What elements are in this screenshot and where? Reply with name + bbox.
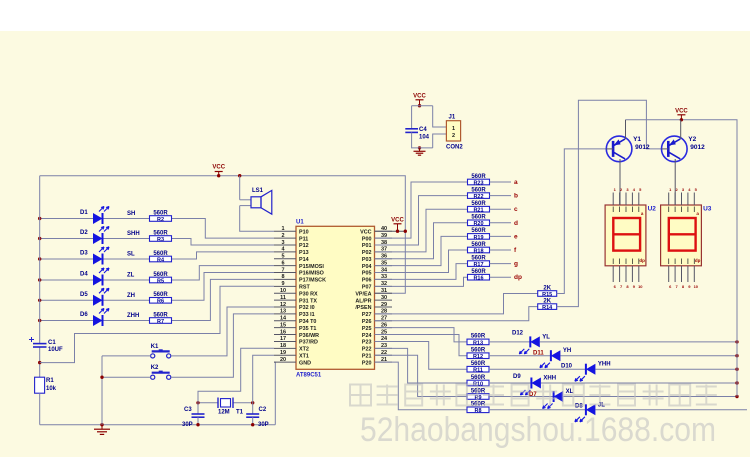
svg-text:P21: P21 <box>362 353 372 359</box>
svg-text:R12: R12 <box>473 354 483 360</box>
svg-text:R4: R4 <box>157 257 165 263</box>
svg-text:30: 30 <box>381 295 387 301</box>
svg-text:D5: D5 <box>80 292 88 298</box>
svg-text:P05: P05 <box>362 271 372 277</box>
svg-text:20: 20 <box>280 357 286 363</box>
svg-text:U3: U3 <box>703 206 712 213</box>
svg-text:R3: R3 <box>157 237 164 243</box>
svg-text:C4: C4 <box>419 127 427 133</box>
svg-text:P31 TX: P31 TX <box>299 298 317 304</box>
svg-text:2: 2 <box>281 233 284 239</box>
svg-text:560R: 560R <box>471 361 486 367</box>
svg-text:U1: U1 <box>296 220 304 226</box>
svg-text:560R: 560R <box>471 201 486 207</box>
svg-text:T1: T1 <box>236 410 244 416</box>
svg-text:K1: K1 <box>151 344 159 350</box>
svg-text:P06: P06 <box>362 278 372 284</box>
svg-text:8: 8 <box>281 274 284 280</box>
svg-text:AL/PR: AL/PR <box>355 298 371 304</box>
svg-text:560R: 560R <box>471 228 486 234</box>
svg-text:P30 RX: P30 RX <box>299 291 318 297</box>
svg-text:P35 T1: P35 T1 <box>299 326 316 332</box>
svg-text:16: 16 <box>280 329 286 335</box>
svg-text:R20: R20 <box>473 221 483 227</box>
svg-text:9: 9 <box>281 281 284 287</box>
svg-text:R2: R2 <box>157 217 164 223</box>
svg-text:52haobangshou.1688.com: 52haobangshou.1688.com <box>360 411 716 449</box>
svg-text:560R: 560R <box>153 272 168 278</box>
svg-text:560R: 560R <box>471 255 486 261</box>
svg-text:7: 7 <box>281 267 284 273</box>
svg-text:R13: R13 <box>473 340 483 346</box>
svg-text:VCC: VCC <box>391 218 404 224</box>
svg-text:C3: C3 <box>184 407 192 413</box>
svg-text:P37/RD: P37/RD <box>299 340 318 346</box>
svg-text:YL: YL <box>542 334 550 340</box>
svg-text:104: 104 <box>419 135 430 141</box>
svg-text:P27: P27 <box>362 312 372 318</box>
svg-text:D4: D4 <box>80 272 88 278</box>
svg-text:2K: 2K <box>543 298 551 304</box>
svg-text:31: 31 <box>381 288 387 294</box>
svg-text:XT1: XT1 <box>299 353 309 359</box>
svg-text:D9: D9 <box>513 374 521 380</box>
svg-text:SL: SL <box>127 252 135 258</box>
svg-text:P26: P26 <box>362 319 372 325</box>
svg-text:R6: R6 <box>157 299 164 305</box>
svg-text:c: c <box>514 206 518 213</box>
svg-text:10k: 10k <box>46 386 57 392</box>
svg-text:30P: 30P <box>182 422 193 428</box>
svg-text:VCC: VCC <box>212 165 225 171</box>
svg-text:Y1: Y1 <box>633 136 641 143</box>
svg-text:P23: P23 <box>362 340 372 346</box>
svg-text:R18: R18 <box>473 248 483 254</box>
svg-text:10: 10 <box>694 284 699 289</box>
svg-text:560R: 560R <box>153 312 168 318</box>
svg-text:560R: 560R <box>153 251 168 257</box>
svg-text:30P: 30P <box>258 422 269 428</box>
svg-text:P16/MISO: P16/MISO <box>299 271 324 277</box>
svg-text:P12: P12 <box>299 243 309 249</box>
svg-text:13: 13 <box>280 309 286 315</box>
svg-text:J1: J1 <box>449 115 456 121</box>
svg-text:11: 11 <box>280 295 286 301</box>
svg-text:R5: R5 <box>157 278 164 284</box>
svg-text:D2: D2 <box>80 230 88 236</box>
svg-text:LS1: LS1 <box>252 188 264 194</box>
svg-text:dp: dp <box>514 274 522 281</box>
svg-text:P22: P22 <box>362 347 372 353</box>
svg-text:U2: U2 <box>648 206 657 213</box>
svg-text:C1: C1 <box>48 340 56 346</box>
svg-text:5: 5 <box>281 254 284 260</box>
svg-text:P17/MSCK: P17/MSCK <box>299 278 326 284</box>
svg-text:P07: P07 <box>362 285 372 291</box>
svg-text:R14: R14 <box>542 305 553 311</box>
svg-text:560R: 560R <box>471 215 486 221</box>
svg-text:1: 1 <box>281 226 284 232</box>
svg-text:P13: P13 <box>299 250 309 256</box>
svg-text:P03: P03 <box>362 257 372 263</box>
svg-text:e: e <box>514 233 518 240</box>
svg-text:12M: 12M <box>218 410 230 416</box>
svg-text:17: 17 <box>280 336 286 342</box>
svg-text:2: 2 <box>452 133 455 139</box>
svg-text:VCC: VCC <box>360 229 371 235</box>
svg-text:VCC: VCC <box>675 109 688 115</box>
svg-text:ZH: ZH <box>127 293 135 299</box>
svg-text:560R: 560R <box>153 210 168 216</box>
svg-text:560R: 560R <box>153 292 168 298</box>
svg-text:g: g <box>514 261 518 268</box>
svg-text:560R: 560R <box>471 187 486 193</box>
svg-text:560R: 560R <box>471 348 486 354</box>
svg-text:R23: R23 <box>473 180 483 186</box>
svg-text:18: 18 <box>280 343 286 349</box>
svg-text:P00: P00 <box>362 236 372 242</box>
svg-text:P15/MOSI: P15/MOSI <box>299 264 324 270</box>
svg-text:10: 10 <box>638 284 643 289</box>
svg-text:D6: D6 <box>80 312 88 318</box>
svg-text:K2: K2 <box>151 365 159 371</box>
svg-text:ZHH: ZHH <box>127 313 139 319</box>
svg-text:D10: D10 <box>561 364 573 370</box>
svg-text:R22: R22 <box>473 194 483 200</box>
svg-text:b: b <box>514 193 518 200</box>
svg-text:10: 10 <box>280 288 286 294</box>
svg-text:P02: P02 <box>362 250 372 256</box>
svg-text:a: a <box>514 179 518 186</box>
svg-text:29: 29 <box>381 302 387 308</box>
svg-text:R15: R15 <box>542 292 552 298</box>
svg-text:R17: R17 <box>473 262 483 268</box>
svg-text:P32 I0: P32 I0 <box>299 305 315 311</box>
svg-text:10UF: 10UF <box>48 347 63 353</box>
svg-text:P11: P11 <box>299 236 308 242</box>
svg-text:560R: 560R <box>153 230 168 236</box>
svg-text:P25: P25 <box>362 326 372 332</box>
svg-text:15: 15 <box>280 322 286 328</box>
svg-text:YH: YH <box>563 348 571 354</box>
svg-text:R16: R16 <box>473 276 483 282</box>
svg-text:dp: dp <box>639 258 645 263</box>
svg-text:C2: C2 <box>259 407 267 413</box>
svg-text:1: 1 <box>452 126 455 132</box>
svg-text:3: 3 <box>281 240 284 246</box>
svg-text:D7: D7 <box>529 392 537 398</box>
svg-text:D1: D1 <box>80 210 88 216</box>
svg-text:RST: RST <box>299 285 310 291</box>
svg-text:9012: 9012 <box>635 144 650 151</box>
svg-text:/PSEN: /PSEN <box>355 305 371 311</box>
svg-text:XT2: XT2 <box>299 347 309 353</box>
svg-text:VP/EA: VP/EA <box>355 291 371 297</box>
svg-text:D3: D3 <box>80 251 88 257</box>
svg-text:SH: SH <box>127 211 135 217</box>
svg-text:P04: P04 <box>362 264 372 270</box>
svg-text:P14: P14 <box>299 257 309 263</box>
svg-text:D11: D11 <box>533 351 544 357</box>
svg-text:P33 I1: P33 I1 <box>299 312 315 318</box>
svg-text:560R: 560R <box>471 269 486 275</box>
svg-text:Y2: Y2 <box>688 136 696 143</box>
svg-text:R21: R21 <box>473 208 483 214</box>
svg-text:YHH: YHH <box>598 362 611 368</box>
svg-text:P01: P01 <box>362 243 372 249</box>
svg-text:560R: 560R <box>471 375 486 381</box>
svg-text:d: d <box>514 220 518 227</box>
svg-text:ZL: ZL <box>127 273 135 279</box>
svg-text:6: 6 <box>281 260 284 266</box>
svg-text:2K: 2K <box>543 285 551 291</box>
svg-text:GND: GND <box>299 360 311 366</box>
svg-text:P10: P10 <box>299 229 309 235</box>
svg-text:dp: dp <box>695 258 701 263</box>
svg-text:AT89C51: AT89C51 <box>296 373 322 379</box>
svg-text:560R: 560R <box>471 242 486 248</box>
svg-text:P34 T0: P34 T0 <box>299 319 316 325</box>
svg-text:560R: 560R <box>471 174 486 180</box>
svg-text:9012: 9012 <box>690 144 705 151</box>
svg-text:P24: P24 <box>362 333 372 339</box>
svg-text:CON2: CON2 <box>446 145 463 151</box>
svg-text:D12: D12 <box>512 331 524 337</box>
svg-text:VCC: VCC <box>413 94 426 100</box>
svg-text:12: 12 <box>280 302 286 308</box>
svg-text:P36/WR: P36/WR <box>299 333 319 339</box>
svg-text:R1: R1 <box>46 378 54 384</box>
svg-text:560R: 560R <box>471 334 486 340</box>
svg-text:14: 14 <box>280 316 287 322</box>
svg-text:R19: R19 <box>473 235 483 241</box>
svg-text:SHH: SHH <box>127 231 140 237</box>
svg-text:R11: R11 <box>473 368 483 374</box>
svg-text:19: 19 <box>280 350 286 356</box>
svg-text:XHH: XHH <box>543 376 556 382</box>
svg-text:P20: P20 <box>362 360 372 366</box>
svg-text:R7: R7 <box>157 319 164 325</box>
